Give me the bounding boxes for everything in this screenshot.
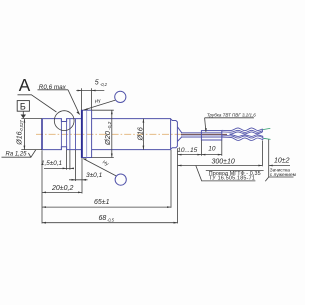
- wire end cap top: [262, 129, 264, 132]
- svg-text:Ra 1,25: Ra 1,25: [6, 152, 28, 158]
- Ra underline: [2, 156, 31, 158]
- body top edge: [92, 118, 171, 120]
- svg-text:20±0,2: 20±0,2: [51, 185, 73, 192]
- svg-text:10: 10: [208, 146, 216, 153]
- svg-text:65±1: 65±1: [94, 199, 110, 206]
- A label underline: [18, 95, 57, 112]
- dim 10..15 and 10 line: [178, 154, 222, 156]
- svg-text:Ну: Ну: [94, 98, 102, 106]
- arrow 20 right: [78, 192, 82, 194]
- svg-text:300±10: 300±10: [212, 158, 235, 165]
- arrow 65 right: [167, 206, 171, 208]
- Ra roughness symbol: [28, 150, 36, 158]
- arrow 300 right and 10+-2 left: [258, 165, 262, 167]
- arrow tube label: [205, 128, 207, 132]
- arrow dia16mid top: [143, 119, 145, 123]
- centerline: [36, 133, 184, 135]
- datum triangle: [21, 115, 26, 119]
- wire end cap bottom: [262, 136, 264, 139]
- svg-text:Ø16: Ø16: [17, 131, 24, 145]
- svg-text:68: 68: [99, 215, 107, 222]
- arrow 65 left: [42, 206, 46, 208]
- svg-text:Ну: Ну: [101, 159, 109, 167]
- arrow 20 left: [42, 192, 46, 194]
- leader Nu top: [84, 100, 116, 110]
- svg-text:5: 5: [95, 79, 99, 86]
- cone bottom line: [177, 137, 182, 142]
- flange outline: [81, 110, 91, 157]
- cone top line: [177, 127, 182, 133]
- arrow 10 left: [201, 154, 205, 156]
- wire label flag slant: [196, 166, 202, 182]
- svg-text:ТУ 16.505.185-71: ТУ 16.505.185-71: [209, 176, 255, 182]
- marking circle top: [115, 91, 126, 102]
- arrow 10..15 right: [197, 154, 201, 156]
- flange seam line: [86, 110, 88, 157]
- dim 5 line: [76, 90, 104, 92]
- arrow dia20 top: [111, 110, 113, 114]
- svg-text:1,5±0,1: 1,5±0,1: [41, 160, 62, 167]
- stripped tinned tip top: [263, 128, 271, 129]
- dim 5 ext lines: [81, 88, 83, 110]
- datum box: [17, 101, 29, 112]
- dia16 left ext lines: [21, 118, 42, 120]
- arrow dia16mid bottom: [143, 146, 145, 150]
- tube label leader: [205, 118, 206, 132]
- dim 68 right ext: [177, 148, 179, 223]
- dim 10+-2 ext left: [261, 141, 263, 167]
- twisted pair eye lower: [230, 134, 264, 136]
- dia16 mid dim line: [142, 119, 144, 150]
- svg-text:-0,5: -0,5: [107, 218, 115, 223]
- dim 10+-2 line: [269, 165, 290, 167]
- arrow 10..15 left: [178, 154, 182, 156]
- wire label top rule: [206, 170, 264, 172]
- svg-text:Трубка ТВТ ПВГ 3,2/1,6: Трубка ТВТ ПВГ 3,2/1,6: [207, 113, 256, 118]
- arrow 1,5 left: [63, 168, 67, 170]
- R0,6 underline: [38, 89, 69, 91]
- arrow 300 left: [178, 165, 182, 167]
- dim 1,5 ext lines: [66, 150, 68, 170]
- strip label slant tick: [265, 177, 268, 181]
- dim 3 line: [69, 179, 88, 181]
- R0,6 leader: [68, 90, 80, 115]
- arrow R0,6: [76, 111, 79, 115]
- arrow dia16 left bottom: [24, 146, 26, 150]
- wire middle dark line: [181, 133, 227, 135]
- svg-text:R0,6 max: R0,6 max: [39, 84, 67, 91]
- dim 10 right ext: [221, 140, 223, 156]
- svg-text:-0,2: -0,2: [107, 121, 113, 130]
- datum stem: [22, 111, 24, 115]
- wire top line: [181, 132, 222, 134]
- twisted pair outer bottom: [222, 137, 263, 140]
- dia20 ext lines: [92, 109, 114, 111]
- stripped tinned tip bottom: [264, 138, 271, 139]
- marking circle bottom: [115, 174, 126, 185]
- arrow 3 left: [72, 179, 76, 181]
- twisted pair outer top: [222, 128, 263, 131]
- groove wall line x61.4: [60, 119, 62, 150]
- wire bottom line: [181, 136, 222, 138]
- dim 65 right ext: [170, 150, 172, 208]
- svg-text:Ø20: Ø20: [103, 130, 112, 146]
- dim 68 line: [42, 222, 178, 224]
- svg-text:-0,027: -0,027: [19, 119, 24, 132]
- text dia20 -0,2 rotated: [103, 121, 113, 146]
- arrow Nu bottom: [83, 158, 86, 160]
- svg-text:10...15: 10...15: [177, 147, 197, 154]
- dia20 dim line: [111, 110, 113, 157]
- flange left face heavy: [81, 110, 83, 157]
- leader Nu bottom: [83, 159, 116, 176]
- arrow Nu top: [84, 108, 88, 110]
- part left cylinder bottom edge: [42, 147, 82, 150]
- left tall ext line: [41, 150, 43, 223]
- arrow 10 right: [218, 154, 222, 156]
- twisted pair eye upper: [230, 132, 263, 134]
- arrow dia16 left top: [24, 119, 26, 123]
- dim 3 and 20 shared right ext: [81, 158, 83, 194]
- strip label underline: [269, 176, 294, 178]
- dim 65 line: [42, 206, 171, 208]
- svg-text:3±0,1: 3±0,1: [86, 172, 103, 179]
- text dia16 mid rotated: [138, 127, 145, 141]
- end cap outline: [171, 119, 178, 150]
- face line x75.5: [75, 119, 77, 150]
- rib wall line x69.9: [69, 119, 71, 150]
- dim 3 ext line left: [75, 150, 77, 181]
- dim 300 line: [178, 165, 263, 167]
- arrow 10+-2 right: [269, 165, 273, 167]
- arrow 5 right: [92, 90, 96, 92]
- body end face: [170, 119, 172, 150]
- part left face: [41, 118, 43, 150]
- body bottom edge: [92, 149, 171, 151]
- dim 1,5 line: [44, 167, 74, 169]
- arrow 5 left: [78, 90, 82, 92]
- sleeve: [201, 131, 221, 140]
- wire inner line: [181, 135, 222, 137]
- dim 20 line: [42, 191, 82, 193]
- detail circle A: [54, 111, 74, 131]
- dim 10..15 / 10 shared ext: [200, 140, 202, 156]
- arrow 68 left: [42, 222, 46, 224]
- twisted pair inner bottom: [222, 136, 263, 138]
- arrow 68 right: [174, 222, 178, 224]
- dim 10+-2 ext right: [268, 140, 270, 178]
- wire label bottom rule: [202, 180, 256, 182]
- svg-text:с лужением: с лужением: [270, 173, 296, 178]
- groove wall line x66.6: [66, 119, 68, 150]
- svg-text:Ø16: Ø16: [138, 127, 145, 141]
- dia16 left dim line: [23, 119, 25, 150]
- text dia16 -0,027 rotated: [17, 119, 24, 145]
- part left cylinder top edge: [42, 119, 82, 122]
- tube label underline: [205, 117, 254, 119]
- svg-text:10±2: 10±2: [274, 157, 290, 164]
- arrow 3 right: [82, 179, 86, 181]
- arrow 1,5 right: [70, 168, 74, 170]
- svg-text:Б: Б: [20, 101, 26, 111]
- svg-text:-0,2: -0,2: [100, 82, 108, 87]
- svg-text:А: А: [19, 75, 31, 95]
- twisted pair inner top: [222, 130, 263, 132]
- arrow dia20 bottom: [111, 154, 113, 158]
